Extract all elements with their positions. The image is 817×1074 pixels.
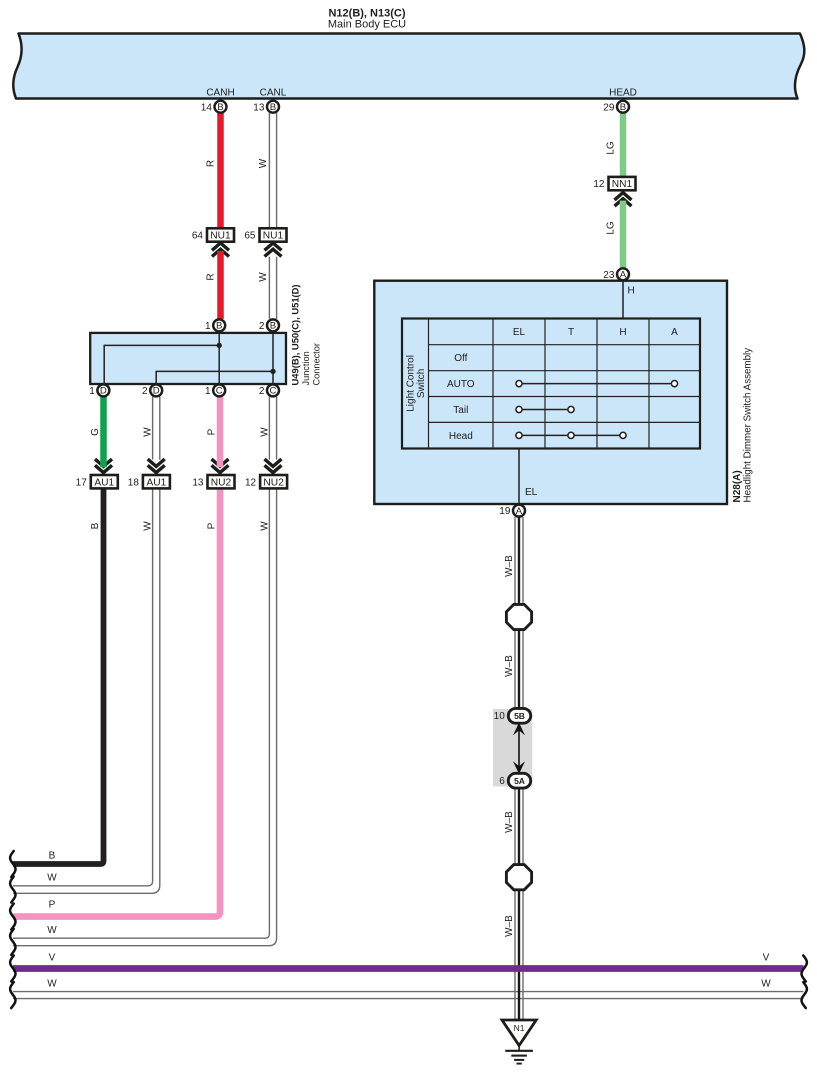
svg-text:5A: 5A [514, 776, 525, 786]
svg-text:B: B [90, 522, 101, 529]
svg-text:1: 1 [205, 321, 211, 332]
svg-text:W: W [258, 272, 269, 282]
svg-text:23: 23 [603, 270, 615, 281]
svg-text:5B: 5B [514, 711, 525, 721]
svg-text:LG: LG [606, 141, 617, 155]
svg-text:R: R [206, 273, 217, 280]
svg-text:A: A [620, 270, 627, 281]
svg-text:29: 29 [603, 102, 615, 113]
svg-text:13: 13 [192, 477, 204, 488]
svg-text:W: W [47, 873, 57, 884]
svg-text:D: D [100, 386, 107, 397]
svg-text:64: 64 [192, 231, 204, 242]
svg-text:W–B: W–B [504, 555, 515, 577]
svg-text:Headlight Dimmer Switch Assemb: Headlight Dimmer Switch Assembly [743, 348, 754, 503]
svg-text:B: B [270, 321, 276, 332]
svg-text:NU1: NU1 [263, 231, 284, 242]
svg-text:W: W [259, 521, 270, 531]
svg-text:Main Body ECU: Main Body ECU [328, 19, 406, 31]
svg-text:G: G [90, 428, 101, 436]
svg-text:AU1: AU1 [94, 477, 114, 488]
svg-text:1: 1 [205, 386, 211, 397]
svg-text:W: W [259, 427, 270, 437]
svg-text:A: A [516, 506, 523, 517]
svg-text:2: 2 [259, 386, 265, 397]
svg-text:W: W [47, 979, 57, 990]
svg-text:17: 17 [76, 477, 88, 488]
svg-text:H: H [628, 286, 635, 297]
svg-text:H: H [619, 327, 626, 338]
svg-text:W: W [761, 979, 771, 990]
svg-text:2: 2 [259, 321, 265, 332]
svg-text:N1: N1 [514, 1023, 525, 1033]
svg-text:W–B: W–B [504, 811, 515, 833]
svg-text:C: C [270, 386, 277, 397]
svg-text:NU2: NU2 [211, 477, 232, 488]
svg-text:Head: Head [449, 431, 473, 442]
svg-text:R: R [206, 160, 217, 167]
svg-text:P: P [207, 428, 218, 435]
svg-text:Switch: Switch [416, 369, 427, 398]
svg-text:Connector: Connector [311, 343, 321, 385]
svg-text:V: V [763, 953, 770, 964]
svg-text:12: 12 [245, 477, 257, 488]
svg-text:P: P [49, 900, 56, 911]
svg-text:EL: EL [513, 327, 526, 338]
svg-text:AU1: AU1 [146, 477, 166, 488]
svg-text:V: V [49, 953, 56, 964]
svg-text:NU2: NU2 [263, 477, 284, 488]
svg-text:D: D [153, 386, 160, 397]
svg-text:EL: EL [525, 487, 538, 498]
svg-text:13: 13 [253, 102, 265, 113]
svg-text:HEAD: HEAD [609, 88, 637, 99]
svg-text:P: P [207, 522, 218, 529]
svg-text:B: B [49, 851, 56, 862]
svg-text:B: B [216, 321, 222, 332]
svg-text:B: B [217, 102, 223, 113]
svg-text:19: 19 [499, 506, 511, 517]
svg-text:W: W [143, 427, 154, 437]
svg-text:Off: Off [454, 353, 467, 364]
svg-text:6: 6 [499, 776, 505, 787]
svg-text:CANL: CANL [260, 88, 287, 99]
svg-text:65: 65 [244, 231, 256, 242]
svg-text:Tail: Tail [453, 405, 468, 416]
svg-text:12: 12 [593, 179, 605, 190]
svg-text:A: A [671, 327, 678, 338]
svg-text:T: T [568, 327, 574, 338]
svg-text:U49(B), U50(C), U51(D): U49(B), U50(C), U51(D) [289, 284, 300, 385]
svg-text:1: 1 [89, 386, 95, 397]
svg-text:14: 14 [201, 102, 213, 113]
svg-text:AUTO: AUTO [447, 379, 475, 390]
svg-text:W–B: W–B [504, 915, 515, 937]
svg-text:B: B [270, 102, 276, 113]
svg-text:CANH: CANH [206, 88, 234, 99]
svg-text:W: W [47, 925, 57, 936]
svg-text:NU1: NU1 [210, 231, 231, 242]
svg-text:10: 10 [494, 711, 506, 722]
svg-text:NN1: NN1 [612, 179, 633, 190]
svg-text:2: 2 [142, 386, 148, 397]
svg-text:W: W [143, 521, 154, 531]
svg-text:LG: LG [606, 221, 617, 235]
svg-text:18: 18 [128, 477, 140, 488]
svg-text:B: B [620, 102, 626, 113]
svg-text:W–B: W–B [504, 655, 515, 677]
svg-text:Junction: Junction [301, 351, 311, 385]
svg-text:W: W [258, 158, 269, 168]
svg-text:N28(A): N28(A) [732, 470, 743, 502]
svg-text:C: C [216, 386, 223, 397]
svg-text:Light Control: Light Control [405, 355, 416, 412]
